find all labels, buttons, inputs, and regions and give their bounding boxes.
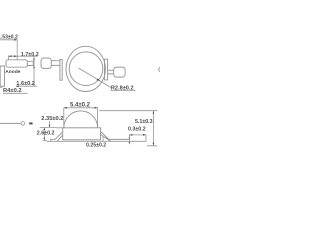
svg-text:5.1±0.3: 5.1±0.3 — [135, 119, 153, 125]
svg-text:Anode: Anode — [5, 69, 20, 75]
svg-text:0.3±0.2: 0.3±0.2 — [128, 127, 146, 133]
svg-text:2.35±0.2: 2.35±0.2 — [41, 116, 63, 122]
svg-text:0.25±0.2: 0.25±0.2 — [86, 142, 106, 148]
svg-text:2.6±0.2: 2.6±0.2 — [37, 131, 55, 137]
svg-text:1.7±0.2: 1.7±0.2 — [21, 52, 39, 58]
svg-text:R2.8±0.2: R2.8±0.2 — [111, 86, 134, 92]
